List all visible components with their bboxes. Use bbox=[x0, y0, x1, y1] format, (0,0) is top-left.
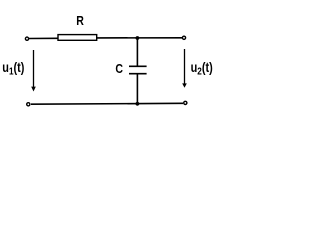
wire bottom bbox=[31, 102, 183, 105]
wire top-right segment bbox=[97, 37, 183, 39]
svg-text:R: R bbox=[76, 13, 84, 28]
arrow u2(t) bbox=[182, 49, 187, 88]
wire top-left segment bbox=[29, 37, 58, 39]
node junction bottom bbox=[136, 102, 140, 106]
terminal top-left bbox=[25, 37, 28, 40]
svg-text:C: C bbox=[115, 61, 123, 76]
label C bbox=[115, 61, 123, 76]
capacitor C plates bbox=[129, 65, 147, 67]
terminal top-right bbox=[182, 36, 185, 39]
node junction top bbox=[136, 36, 140, 40]
svg-text:u1(t): u1(t) bbox=[2, 60, 24, 77]
svg-text:u2(t): u2(t) bbox=[191, 60, 213, 77]
label R bbox=[76, 13, 84, 28]
terminal bottom-right bbox=[184, 101, 187, 104]
label u1(t) bbox=[2, 60, 24, 77]
label u2(t) bbox=[191, 60, 213, 77]
terminal bottom-left bbox=[27, 103, 30, 106]
capacitor C bottom lead wire bbox=[136, 74, 138, 104]
capacitor C top lead wire bbox=[136, 38, 138, 66]
arrow u1(t) bbox=[31, 50, 36, 92]
resistor R bbox=[58, 35, 97, 41]
